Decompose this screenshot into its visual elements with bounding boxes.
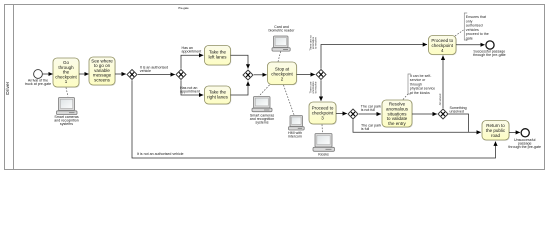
flow: G4 down to Proceed to checkpoint 3 [320,80,322,101]
task: Take the left lanes [205,46,232,66]
association: checkpoint3 to kiosks icon (dashed) [321,125,324,133]
association: resolve task to annotation (dashed) [403,94,408,100]
flow: stop2 to gateway G4 [297,74,315,76]
association: stop2 to card reader icon (dashed) [278,51,281,62]
svg-text:truck at pre-gate: truck at pre-gate [25,82,51,86]
svg-text:vehicle: vehicle [140,69,151,73]
svg-text:Driver: Driver [5,81,11,94]
gateway G2: appointment? [176,70,186,80]
faint diagram title text [178,6,189,10]
flow: G5 to Resolve anomalous situations [359,113,381,115]
association: checkpoint1 to smart cameras icon (dashed) [66,88,68,97]
label: Has not an appointment [180,86,200,94]
task: See where to go on variable message screens [89,57,116,86]
flow: checkpoint4 to success end event [456,44,485,46]
flow: checkpoint3 to gateway G5 [336,113,347,115]
flow: G1 to G2 [138,74,175,76]
pool frame [5,5,545,170]
label: Something unsolved [450,106,467,114]
flow: G2 down to Take the right lanes [181,80,203,95]
svg-text:appointment: appointment [180,90,200,94]
flow: G1 down and along bottom to Return task (not authorised path) [132,80,496,158]
flow: G5 down along y129 to Return task [353,120,481,133]
computer icon: HMI with intercom [288,116,304,139]
flow: G2 up to Take the left lanes [181,55,203,69]
svg-text:Kiosks: Kiosks [318,152,329,156]
svg-text:through the pre-gate: through the pre-gate [508,145,541,149]
svg-text:appointment: appointment [182,50,202,54]
svg-text:at the kiosks: at the kiosks [410,91,430,95]
association: stop2 to smart cameras icon 2 (dashed) [259,85,270,96]
gateway G1: authorised vehicle? [127,70,137,80]
svg-text:is full: is full [361,127,369,131]
rotated label: There are no anomalies to resolve [309,35,318,51]
gateway G6: solved? [438,109,448,119]
lane label: Driver [5,81,11,94]
flow: return task to fail end event [509,131,520,133]
computer icon: Kiosks [313,134,335,157]
label: Has an appointment [182,46,202,54]
rotated label: All solved [438,93,442,105]
flow: resolve task to gateway G6 [412,113,437,115]
gateway G3: merge [243,70,253,80]
svg-text:Pre-gate: Pre-gate [178,6,189,10]
svg-text:biometric reader: biometric reader [269,29,296,33]
svg-text:intercom: intercom [288,134,302,138]
computer icon: Smart cameras and recognition systems (left) [54,98,79,127]
svg-text:unsolved: unsolved [450,110,464,114]
gateway G5: car park full? [348,109,358,119]
flow: G3 to Stop at checkpoint 2 [254,74,267,76]
svg-text:the entry: the entry [388,121,406,126]
svg-text:gate: gate [466,36,473,40]
flow: G6 up to Proceed to checkpoint 4 (solved) [442,56,444,109]
svg-text:systems: systems [255,121,268,125]
flow: G4 up and right to Proceed to checkpoint 4 [321,45,427,69]
label: It is not an authorised vehicle [137,152,184,156]
end event: Successful passage through the pre-gate [473,41,506,57]
rotated label: There are anomalies to resolve [308,81,317,94]
association: stop2 to HMI intercom icon (dashed) [284,85,295,115]
annotation bracket: Ensures that only authorised vehicles proceed to the gate [464,13,488,40]
svg-text:All solved: All solved [438,93,442,105]
task: Return to the public road [482,121,510,141]
association: checkpoint4 to annotation (dashed) [455,30,464,36]
flow: G6 right then down to Return task (unsolved) [449,114,469,132]
computer icon: Card and biometric reader [272,36,290,51]
task: Proceed to checkpoint 4 [429,36,457,56]
computer icon: Smart cameras and recognition systems (middle) [250,97,275,125]
svg-text:is not full: is not full [361,108,375,112]
flow: checkpoint1 to see-where task [79,73,89,75]
svg-text:screens: screens [94,77,111,82]
gateway G4: anomalies? [316,70,326,80]
label: The car park is full [361,124,381,131]
svg-text:road: road [491,133,501,138]
svg-text:to resolve: to resolve [314,81,318,93]
task: Proceed to checkpoint 3 [309,102,337,125]
label above icon: Card and biometric reader [269,25,296,33]
label: The car park is not full [361,105,381,113]
svg-text:through the pre-gate: through the pre-gate [473,53,506,57]
svg-text:left lanes: left lanes [208,55,227,60]
flow: start to checkpoint1 task [43,73,53,75]
svg-text:right lanes: right lanes [207,95,229,100]
annotation bracket: It can be self-service or through physical service at the kiosks [408,74,435,95]
task: Resolve anomalous situations to validate the entry [382,100,413,128]
flow: left lanes to G3 merge [231,55,249,68]
flow: see-where task to gateway G1 [115,73,126,75]
start event: Arrival of the truck at pre-gate [25,70,51,86]
svg-text:It is not an authorised vehicl: It is not an authorised vehicle [137,152,184,156]
flow: right lanes to G3 merge [231,82,249,96]
svg-text:systems: systems [60,122,73,126]
task: Stop at checkpoint 2 [268,62,298,85]
task: Take the right lanes [205,86,232,105]
task: Go through the checkpoint 1 [53,58,80,88]
end event: Unsuccessful passage through the pre-gate [508,129,541,149]
svg-text:to resolve: to resolve [314,37,318,49]
label: It is an authorised vehicle [140,66,168,74]
